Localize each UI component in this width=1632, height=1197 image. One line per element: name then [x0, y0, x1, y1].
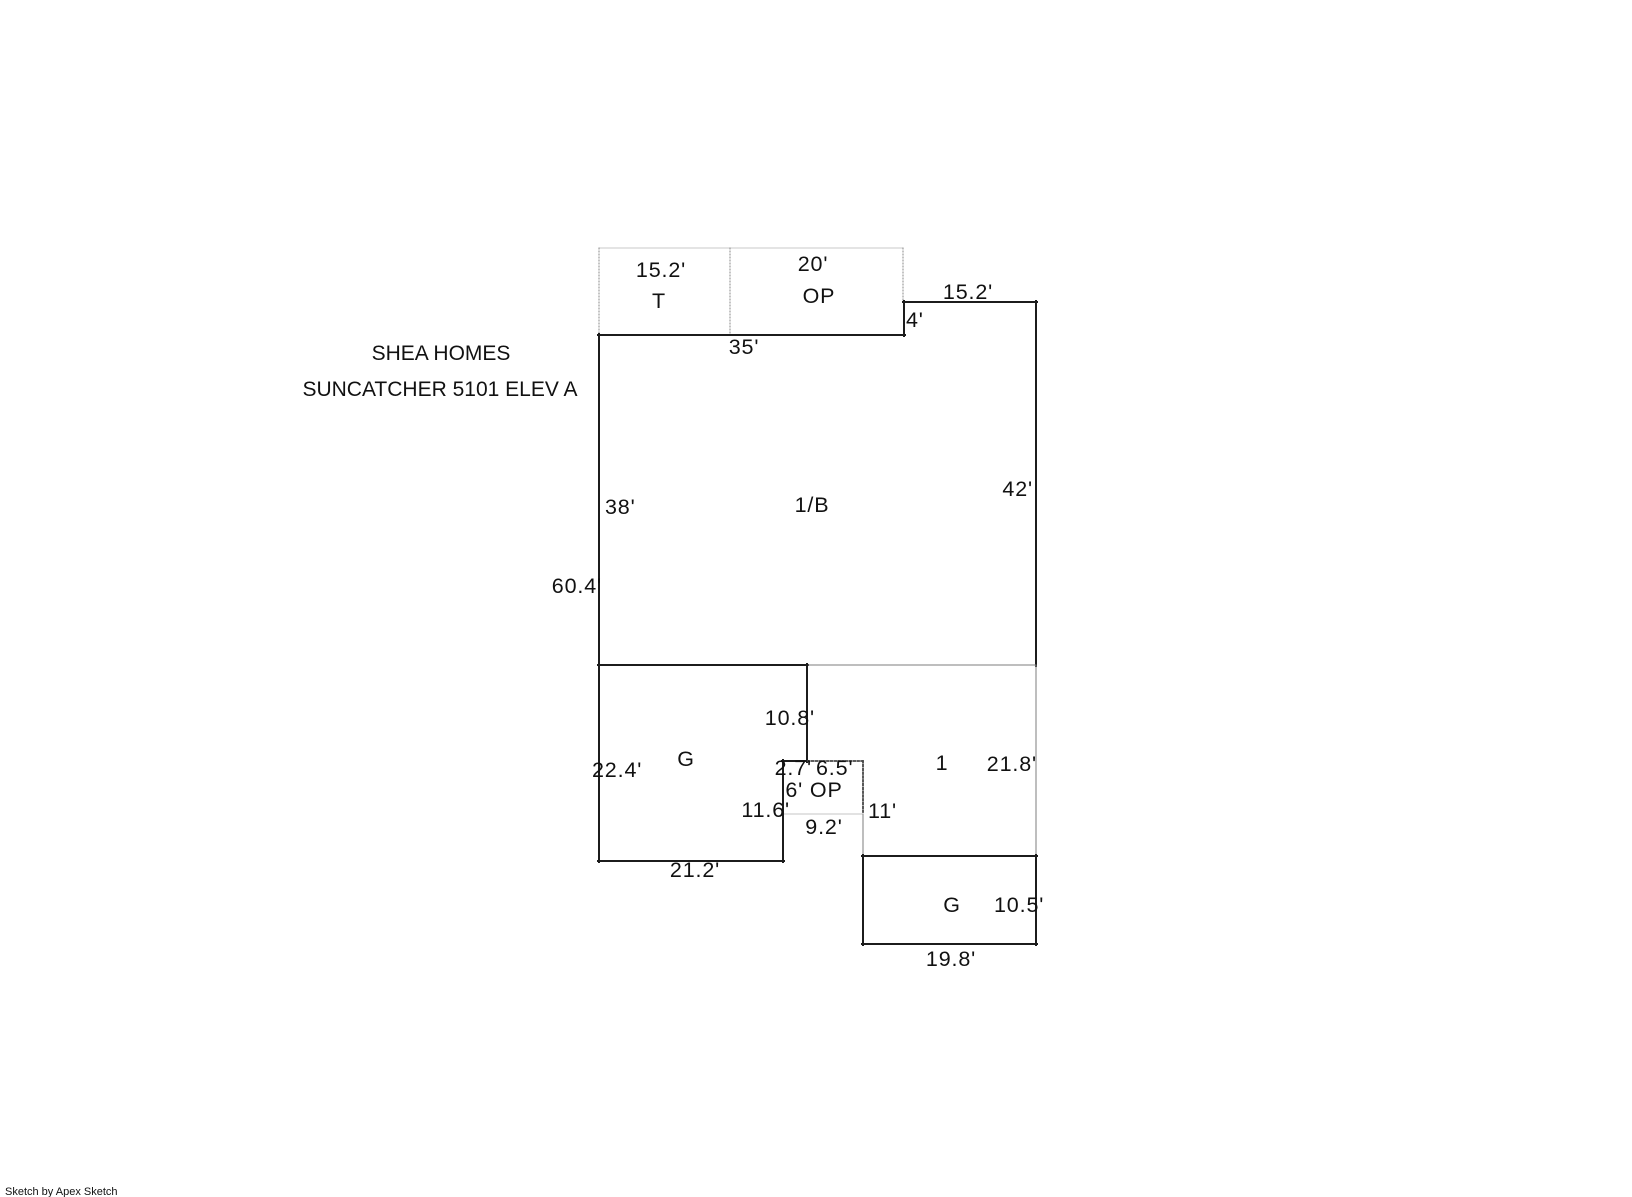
- svg-text:G: G: [943, 893, 961, 917]
- wall top of 1/B (35'): [598, 334, 905, 336]
- svg-text:OP: OP: [803, 284, 836, 308]
- svg-text:11': 11': [868, 799, 897, 823]
- OP overhang right dotted edge: [902, 248, 904, 302]
- svg-text:Sketch by Apex Sketch: Sketch by Apex Sketch: [5, 1186, 118, 1197]
- patio OP bottom light: [783, 813, 863, 815]
- T/OP divider dotted: [729, 248, 731, 334]
- interior line right of area 1 (21.8'): [1035, 666, 1037, 856]
- svg-text:22.4': 22.4': [592, 758, 642, 782]
- svg-text:2.7': 2.7': [775, 756, 812, 780]
- svg-text:42': 42': [1002, 477, 1033, 501]
- interior line bottom of 1/B right part: [808, 664, 1036, 666]
- svg-text:SUNCATCHER 5101 ELEV A: SUNCATCHER 5101 ELEV A: [302, 378, 577, 401]
- svg-text:9.2': 9.2': [805, 815, 842, 839]
- svg-text:10.8': 10.8': [765, 706, 815, 730]
- wall 10.8': [806, 664, 808, 762]
- svg-text:T: T: [652, 289, 666, 313]
- svg-text:10.5': 10.5': [994, 893, 1044, 917]
- svg-text:SHEA HOMES: SHEA HOMES: [372, 342, 511, 365]
- T area left dotted edge: [598, 248, 600, 334]
- wall top right (15.2'): [903, 301, 1037, 303]
- wall left (38' + 22.4' = 60.4'): [598, 334, 600, 862]
- svg-text:1/B: 1/B: [795, 493, 830, 517]
- wall garage left: [862, 855, 864, 945]
- svg-text:1: 1: [936, 751, 949, 775]
- T/OP overhang top edge: [599, 247, 903, 249]
- svg-text:60.4': 60.4': [552, 574, 602, 598]
- wall garage bottom (19.8'): [862, 943, 1037, 945]
- wall bottom of G (21.2'): [598, 860, 784, 862]
- svg-text:4': 4': [906, 308, 924, 332]
- patio OP right dotted: [862, 761, 864, 814]
- wall right of 1/B (42'): [1035, 301, 1037, 666]
- patio OP top dotted (6.5'): [808, 760, 863, 762]
- wall 2.7': [782, 760, 808, 762]
- svg-text:21.2': 21.2': [670, 858, 720, 882]
- svg-text:6.5': 6.5': [816, 756, 853, 780]
- wall bottom of 1/B left part: [598, 664, 808, 666]
- svg-text:38': 38': [605, 495, 636, 519]
- wall 11.6': [782, 760, 784, 862]
- wall step up (4'): [903, 301, 905, 336]
- svg-text:19.8': 19.8': [926, 947, 976, 971]
- svg-text:20': 20': [798, 252, 829, 276]
- wall garage top: [862, 855, 1037, 857]
- svg-text:15.2': 15.2': [943, 280, 993, 304]
- wall garage right (10.5'): [1035, 855, 1037, 945]
- svg-text:15.2': 15.2': [636, 258, 686, 282]
- svg-text:21.8': 21.8': [987, 752, 1037, 776]
- svg-text:11.6': 11.6': [741, 798, 790, 822]
- svg-text:G: G: [677, 747, 695, 771]
- svg-text:6' OP: 6' OP: [785, 778, 842, 802]
- interior line 11': [862, 814, 864, 856]
- svg-text:35': 35': [729, 335, 760, 359]
